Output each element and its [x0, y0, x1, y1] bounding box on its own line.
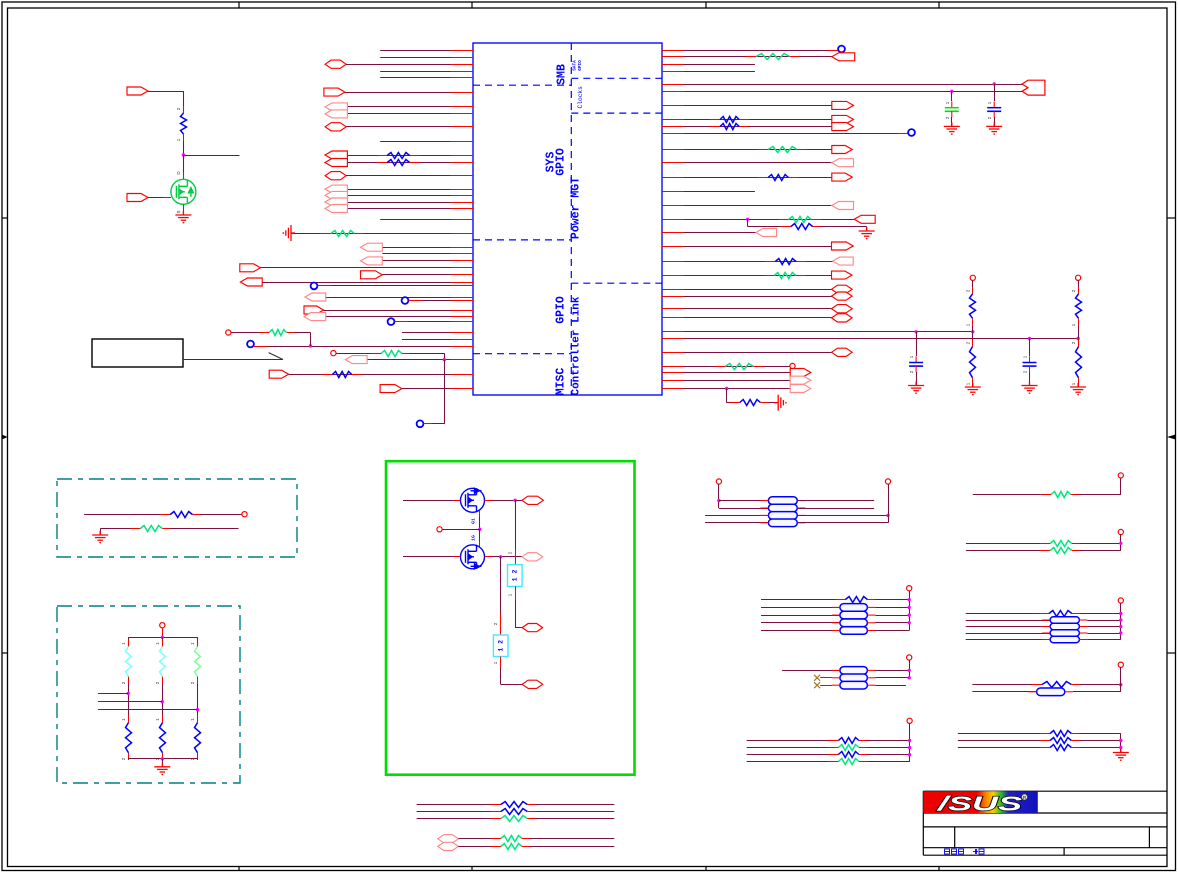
connector J5 — [325, 123, 346, 131]
wire — [347, 162, 473, 164]
resistor R11 — [758, 147, 807, 153]
ferrite bead L2 — [768, 504, 797, 512]
section divider dashed — [571, 282, 662, 284]
connector J49 — [522, 624, 543, 632]
wire — [326, 316, 473, 318]
wire — [726, 389, 728, 403]
connector J38 — [832, 271, 853, 279]
wire — [347, 106, 473, 108]
border tick bottom — [938, 867, 940, 871]
ground — [92, 531, 108, 543]
wire — [662, 261, 853, 263]
border tick left — [2, 217, 8, 219]
connector J33 — [832, 202, 854, 210]
wire — [875, 615, 909, 617]
junction — [1119, 631, 1122, 634]
svg-text:1 2: 1 2 — [497, 640, 504, 652]
junction — [1119, 683, 1122, 686]
wire — [662, 149, 852, 151]
wire — [500, 667, 502, 685]
wire — [875, 630, 909, 632]
wire — [1087, 626, 1120, 628]
ferrite bead L11 — [1050, 630, 1079, 636]
junction — [1119, 612, 1122, 615]
connector J39 — [832, 285, 853, 293]
wire — [485, 556, 493, 558]
junction — [1119, 746, 1122, 749]
wire — [162, 684, 164, 716]
capacitor C3 — [909, 356, 923, 372]
junction — [127, 692, 130, 695]
wire — [662, 289, 852, 291]
border tick right — [1167, 652, 1176, 654]
connector J48 — [522, 553, 543, 561]
border tick top — [471, 2, 473, 8]
junction — [443, 358, 446, 361]
connector J4 — [325, 110, 347, 118]
border center arrow left — [2, 436, 5, 438]
wire — [875, 622, 909, 624]
wire — [479, 529, 481, 541]
connector J6 — [325, 151, 347, 159]
wire — [1073, 691, 1121, 693]
wire — [867, 747, 910, 749]
connector J27 — [832, 101, 854, 109]
junction — [971, 330, 974, 333]
wire — [875, 670, 909, 672]
ferrite bead L8 — [840, 627, 868, 635]
wire — [346, 175, 473, 177]
svg-text:1 2: 1 2 — [512, 570, 519, 582]
resistor R40 — [828, 759, 869, 765]
wire — [291, 233, 473, 235]
wire — [98, 709, 198, 711]
border tick bottom — [705, 867, 707, 871]
wire — [347, 113, 473, 115]
wire — [347, 155, 473, 157]
resistor R43 — [1040, 745, 1081, 751]
ground — [986, 122, 1002, 134]
wire — [380, 141, 473, 143]
wire — [1120, 478, 1122, 495]
ground — [774, 395, 786, 411]
resistor R7 — [181, 106, 187, 141]
wire — [875, 685, 906, 687]
wire — [410, 353, 444, 355]
wire — [747, 740, 839, 742]
resistor R16 — [764, 273, 806, 279]
connector J14 — [361, 257, 383, 265]
terminal P9 — [716, 479, 721, 484]
wire — [492, 500, 515, 502]
section divider dashed — [473, 84, 571, 86]
wire — [380, 50, 473, 52]
terminal P1 — [226, 330, 231, 335]
wire — [761, 607, 840, 609]
connector J34 — [854, 215, 875, 223]
wire — [662, 317, 852, 319]
connector J42 — [832, 314, 853, 322]
connector J31 — [832, 159, 854, 167]
ground — [1113, 749, 1129, 761]
svg-text:GPIO: GPIO — [555, 296, 568, 324]
connector J13 — [361, 243, 383, 251]
wire — [1029, 372, 1031, 386]
resistor R34 — [835, 597, 877, 603]
resistor R44 — [491, 802, 538, 808]
wire — [347, 208, 473, 210]
connector J23 — [380, 385, 402, 393]
ground — [1070, 383, 1086, 395]
junction — [908, 621, 911, 624]
wire — [972, 691, 1036, 693]
junction — [1119, 625, 1122, 628]
junction — [196, 708, 199, 711]
connector J51 — [438, 835, 459, 843]
node N1 — [311, 283, 318, 290]
wire — [662, 352, 852, 354]
wire — [867, 761, 910, 763]
wire — [1078, 325, 1080, 338]
resistor R46 — [491, 816, 538, 822]
terminal P15 — [907, 655, 912, 660]
wire — [973, 494, 1051, 496]
ferrite bead L9 — [1050, 617, 1079, 623]
annotation pointer — [183, 353, 283, 360]
junction — [478, 528, 481, 531]
wire — [367, 359, 473, 361]
wire — [727, 402, 740, 404]
wire — [768, 402, 778, 404]
wire — [380, 219, 473, 221]
wire — [409, 300, 474, 302]
annotation box — [92, 339, 183, 367]
resistor R22 — [1076, 340, 1082, 385]
ferrite bead L1 — [768, 497, 797, 505]
wire — [1079, 747, 1121, 749]
resistor R33 — [1040, 548, 1082, 554]
ferrite bead L15 — [840, 681, 868, 689]
wire — [662, 366, 790, 368]
wire — [380, 71, 473, 73]
ground — [1022, 382, 1038, 394]
wire — [197, 684, 199, 716]
wire — [347, 189, 473, 191]
wire — [972, 684, 1042, 686]
connector J18 — [305, 293, 326, 301]
resistor R28 — [126, 716, 132, 760]
terminal P4 — [970, 275, 975, 280]
junction — [725, 387, 728, 390]
wire — [662, 133, 908, 135]
connector J52 — [438, 842, 459, 850]
terminal P17 — [907, 718, 912, 723]
wire — [444, 420, 446, 424]
wire — [162, 637, 164, 646]
resistor R26 — [160, 639, 166, 683]
wire — [820, 677, 832, 679]
resistor R24 — [130, 526, 172, 532]
junction — [908, 676, 911, 679]
connector J21 — [345, 356, 367, 364]
wire — [662, 372, 790, 374]
wire — [875, 599, 909, 601]
wire — [492, 556, 522, 558]
terminal P11 — [1118, 473, 1123, 478]
wire — [1120, 667, 1122, 692]
border tick top — [705, 2, 707, 8]
wire — [1078, 280, 1080, 294]
wire — [382, 274, 473, 276]
wire — [128, 637, 130, 646]
wire — [966, 626, 1050, 628]
wire — [346, 64, 473, 66]
connector J41 — [832, 305, 853, 313]
resistor R8 — [746, 54, 800, 60]
svg-text:MISC: MISC — [555, 368, 568, 396]
wire — [424, 423, 445, 425]
junction — [908, 606, 911, 609]
wire — [662, 205, 854, 207]
connector J50 — [522, 680, 543, 688]
wire — [888, 484, 890, 523]
connector J16 — [361, 271, 383, 279]
wire — [183, 91, 185, 113]
resistor R21 — [1076, 287, 1082, 325]
wire — [128, 684, 130, 716]
resistor R36 — [1032, 682, 1081, 688]
junction — [1119, 542, 1122, 545]
terminal P2 — [331, 351, 336, 356]
option box (dash-dot) B — [57, 606, 240, 783]
resistor R10 — [710, 124, 749, 130]
wire — [1078, 385, 1080, 387]
connector J43 — [832, 348, 853, 356]
wire — [231, 332, 269, 334]
wire — [1120, 535, 1122, 551]
wire — [747, 761, 839, 763]
svg-text:S: S — [176, 210, 181, 213]
wire — [966, 613, 1049, 615]
connector J30 — [832, 146, 853, 154]
ground — [944, 122, 960, 134]
terminal P3 — [790, 363, 795, 368]
wire — [747, 219, 749, 226]
wire — [866, 227, 868, 232]
connector J22 — [269, 370, 289, 378]
date text — [945, 849, 985, 854]
wire — [958, 747, 1050, 749]
connector J8 — [325, 172, 346, 180]
wire — [200, 514, 242, 516]
connector J20 — [304, 313, 326, 321]
section divider dashed — [571, 112, 662, 114]
connector J26 — [832, 53, 855, 61]
wire — [875, 607, 909, 609]
wire — [402, 339, 473, 341]
wire — [530, 846, 614, 848]
connector J45 — [790, 376, 811, 384]
ferrite bead L16 — [1037, 688, 1065, 696]
resistor R41 — [1040, 731, 1081, 737]
svg-text:/SUS: /SUS — [936, 793, 1022, 816]
jumper W2 — [493, 635, 508, 657]
resistor R27 — [195, 639, 201, 683]
resistor R4 — [259, 330, 296, 336]
wire — [197, 759, 199, 760]
wire — [380, 77, 473, 79]
wire — [479, 511, 481, 518]
wire — [346, 126, 473, 128]
border tick top — [238, 2, 240, 8]
wire — [662, 162, 854, 164]
junction — [950, 90, 953, 93]
wire — [951, 117, 953, 126]
junction — [914, 330, 917, 333]
junction — [993, 82, 996, 85]
connector J37 — [833, 257, 854, 265]
section divider dashed — [473, 353, 571, 355]
ferrite bead L6 — [840, 611, 868, 619]
section divider dashed — [473, 239, 571, 241]
terminal P6 — [242, 512, 247, 517]
wire — [662, 232, 777, 234]
wire — [98, 693, 128, 695]
border center arrow right — [1167, 435, 1176, 440]
option box (dash-dot) A — [57, 479, 297, 557]
wire — [515, 627, 522, 629]
svg-text:GPIO: GPIO — [555, 148, 568, 176]
wire — [958, 733, 1050, 735]
connector J40 — [832, 292, 853, 300]
wire — [719, 500, 769, 502]
wire — [380, 57, 473, 59]
wire — [402, 388, 473, 390]
wire — [1079, 733, 1121, 735]
wire — [867, 754, 910, 756]
wire — [535, 818, 614, 820]
capacitor C2 — [945, 102, 959, 118]
wire — [479, 517, 481, 529]
wire — [485, 500, 493, 502]
junction — [309, 344, 312, 347]
wire — [183, 204, 185, 215]
wire — [662, 219, 854, 221]
wire — [318, 285, 474, 287]
wire — [382, 247, 473, 249]
junction — [1119, 618, 1122, 621]
wire — [662, 71, 755, 73]
wire — [403, 556, 461, 558]
wire — [417, 818, 501, 820]
capacitor C4 — [1023, 356, 1037, 372]
wire — [662, 388, 790, 390]
border tick top — [938, 2, 940, 8]
wire — [718, 484, 720, 508]
resistor R19 — [970, 287, 976, 325]
junction — [886, 514, 889, 517]
connector J12 — [325, 205, 347, 213]
wire — [444, 360, 446, 420]
resistor R15 — [765, 259, 806, 265]
connector J9 — [325, 185, 347, 193]
wire — [966, 550, 1050, 552]
connector J3 — [325, 103, 347, 111]
wire — [336, 353, 381, 355]
wire — [1079, 740, 1121, 742]
wire — [662, 308, 852, 310]
connector J1 — [325, 60, 346, 68]
svg-text:1G: 1G — [471, 535, 477, 541]
resistor R48 — [491, 844, 532, 850]
terminal P13 — [907, 586, 912, 591]
wire — [705, 515, 768, 517]
resistor R5 — [371, 351, 412, 357]
wire — [128, 758, 197, 760]
wire — [261, 267, 474, 269]
node N3 — [388, 318, 395, 325]
highlight box (green) — [386, 461, 635, 775]
resistor R1 — [377, 153, 419, 159]
wire — [662, 177, 852, 179]
resistor R18 — [730, 400, 771, 406]
junction — [908, 753, 911, 756]
connector J17 — [240, 278, 262, 286]
connector J29 — [832, 123, 854, 131]
wire — [170, 528, 238, 530]
wire — [761, 599, 845, 601]
section divider dashed vertical — [570, 43, 572, 395]
wire — [966, 633, 1050, 635]
ferrite bead L13 — [840, 667, 868, 675]
connector J_bus2 — [1022, 80, 1045, 95]
node N2 — [402, 297, 409, 304]
junction — [908, 739, 911, 742]
wire — [403, 500, 461, 502]
resistor R35 — [1039, 611, 1082, 617]
junction — [182, 153, 185, 156]
wire — [535, 811, 614, 813]
wire — [1120, 603, 1122, 639]
wire — [1080, 613, 1121, 615]
wire — [500, 557, 502, 614]
connector J32 — [832, 173, 853, 181]
wire — [662, 331, 973, 333]
ground — [965, 383, 981, 395]
wire — [148, 91, 183, 93]
wire — [662, 246, 853, 248]
wire — [345, 92, 473, 94]
transistor Q3 — [461, 545, 485, 569]
wire — [966, 543, 1050, 545]
wire — [994, 117, 996, 126]
wire — [705, 522, 768, 524]
wire — [289, 374, 473, 376]
wire — [417, 804, 501, 806]
wire — [761, 615, 840, 617]
resistor R39 — [828, 752, 869, 758]
svg-text:Clocks: Clocks — [577, 86, 584, 109]
connector J47 — [522, 496, 544, 504]
ground GND Q1 — [175, 211, 191, 223]
wire — [662, 105, 854, 107]
junction — [746, 218, 749, 221]
wire — [662, 126, 854, 128]
junction — [161, 700, 164, 703]
wire — [782, 670, 840, 672]
wire — [535, 804, 614, 806]
resistor R3 — [321, 231, 365, 237]
